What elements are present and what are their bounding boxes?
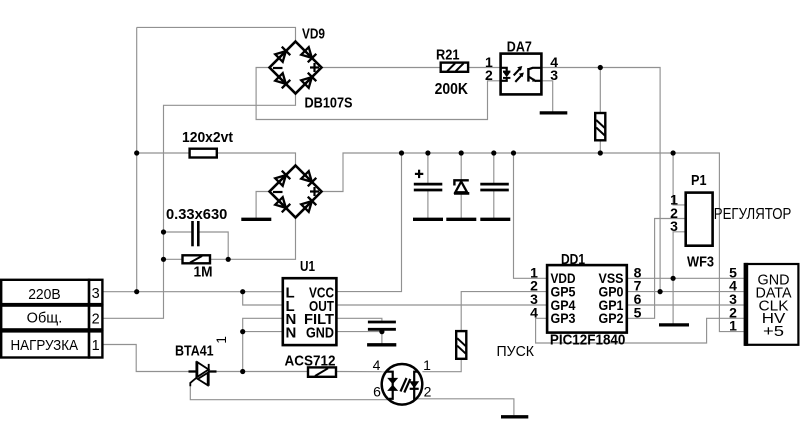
- label DD1 pin GP0: [599, 284, 624, 300]
- label REGULATOR: [714, 206, 792, 223]
- label U1 pin VCC: [309, 285, 334, 302]
- current sensor U1 box: [283, 278, 337, 345]
- microcontroller DD1 box: [547, 265, 627, 333]
- node L pins junction: [240, 289, 245, 294]
- svg-text:ПУСК: ПУСК: [497, 343, 535, 360]
- node N pins junction: [240, 329, 245, 334]
- svg-text:VD9: VD9: [302, 26, 325, 43]
- wire 1M stubs: [164, 258, 229, 260]
- label conn pin 4: [729, 278, 737, 294]
- shunt ACS712: [308, 367, 336, 376]
- label U1 pin N1: [286, 311, 297, 328]
- svg-text:GP2: GP2: [599, 310, 624, 326]
- label DD1 pin VSS: [599, 270, 624, 286]
- label HV: [762, 310, 786, 327]
- wire N2 stub: [243, 331, 283, 333]
- wire bus to U1 VCC: [336, 153, 401, 292]
- wire N pin jumper down to load line: [243, 318, 283, 371]
- label DD1: [561, 251, 585, 268]
- label R21: [436, 47, 460, 64]
- label NAGRUZKA: [11, 338, 79, 354]
- label DA7 pin 3: [550, 67, 558, 83]
- node bus zener tap: [459, 150, 464, 155]
- opto triac driver: [382, 364, 423, 405]
- wire bus to electrolytic cap: [427, 153, 429, 218]
- node bus VCC tap: [399, 150, 404, 155]
- wire bus to cap2: [493, 153, 495, 218]
- svg-text:5: 5: [634, 304, 642, 320]
- wire U1 GND to cap bottom and ground: [336, 331, 382, 344]
- svg-text:6: 6: [373, 383, 381, 399]
- wire bridge2 minus to ground: [256, 192, 269, 219]
- label DA7 pin 4: [550, 54, 558, 70]
- label Obsh: [27, 310, 63, 326]
- wire P1 pin2 to DD1 GP2: [627, 219, 686, 319]
- label U1 pin N2: [286, 325, 297, 342]
- label DD1 pin GP2: [599, 310, 624, 326]
- wire 220V line to U1 L pin: [102, 291, 282, 293]
- label DD1 pin 7: [634, 278, 642, 294]
- label DB107S: [305, 94, 353, 111]
- label DA7 pin 1: [485, 54, 493, 70]
- ground bridge2 minus: [241, 218, 271, 221]
- label WF3: [687, 254, 714, 271]
- label DD1 pin 2: [530, 278, 538, 294]
- node 1M left: [161, 257, 166, 262]
- svg-text:GND: GND: [306, 325, 334, 342]
- svg-text:4: 4: [530, 304, 538, 320]
- node bus P1 pin1 tap: [671, 150, 676, 155]
- label conn pin 5: [729, 264, 737, 280]
- label DATA: [756, 284, 792, 301]
- label DD1 pin GP4: [551, 297, 576, 313]
- label DD1 pin 4: [530, 304, 538, 320]
- wire P1 pin3 to VSS row and ground: [673, 232, 686, 324]
- capacitor 2: [480, 184, 509, 190]
- wire opto pin2 to ground: [416, 399, 514, 415]
- wire cap 0.33 right to 1M right node: [198, 232, 228, 259]
- ground DA7 pin3: [540, 111, 568, 114]
- label P1 pin 1: [670, 191, 678, 207]
- label PUSK: [497, 343, 535, 360]
- capacitor electrolytic plus: [414, 170, 443, 190]
- svg-text:2: 2: [424, 383, 432, 399]
- connector P1: [686, 193, 713, 246]
- node VSS row junction: [671, 276, 676, 281]
- node load line junction: [240, 369, 245, 374]
- connector left terminal block 220V: [1, 280, 102, 358]
- connector right programming header: [746, 263, 799, 346]
- label conn pin 3: [729, 291, 737, 307]
- label CLK: [759, 297, 789, 314]
- wire DA7 pin4 to node and down to GP0 row: [541, 68, 660, 292]
- label terminal pin 3: [92, 286, 100, 302]
- wire DD1 GP1 row to connector pin3 CLK: [627, 304, 744, 306]
- label DD1 pin GP3: [551, 310, 576, 326]
- ground cap2: [480, 218, 510, 221]
- label PIC12F1840: [550, 331, 626, 348]
- label terminal pin 2: [92, 312, 100, 328]
- node cap033 left top: [161, 229, 166, 234]
- label +5: [763, 323, 784, 340]
- wire DD1 GP0 row to connector pin4 DATA: [627, 291, 744, 293]
- label DD1 pin 5: [634, 304, 642, 320]
- wire top bus from left bus corner to VD9 top: [137, 27, 296, 41]
- bridge rectifier 2 (unlabeled): [270, 166, 322, 218]
- label DA7: [507, 38, 532, 55]
- wire U1 OUT to DD1 GP4: [336, 304, 547, 306]
- svg-text:3: 3: [550, 67, 558, 83]
- label DD1 pin 8: [634, 264, 642, 280]
- wire VD9 plus output to R21: [322, 67, 441, 69]
- triac BTA41: [189, 361, 217, 386]
- svg-text:R21: R21: [436, 47, 460, 64]
- node bus VDD tap: [511, 150, 516, 155]
- svg-text:DD1: DD1: [561, 251, 585, 268]
- label DD1 pin GP5: [551, 284, 576, 300]
- node bus resistor tap: [598, 150, 603, 155]
- wire DD1 VSS row to connector pin5 GND: [627, 277, 744, 279]
- resistor R21: [441, 63, 468, 72]
- svg-text:1: 1: [729, 318, 737, 334]
- node bus-left junction: [134, 150, 139, 155]
- resistor 1M: [183, 255, 211, 263]
- svg-text:DA7: DA7: [507, 38, 532, 55]
- wire DA7 pin3 to ground: [541, 81, 552, 112]
- wire P1 pin1 to bus: [673, 153, 686, 205]
- svg-text:N: N: [286, 325, 297, 342]
- label 1M: [194, 263, 213, 280]
- label DD1 pin 6: [634, 291, 642, 307]
- label 200K: [435, 81, 469, 98]
- wire R21 to DA7 pin1: [468, 67, 501, 69]
- svg-text:1: 1: [214, 336, 229, 344]
- label triac pin 1 rotated: [214, 336, 229, 344]
- capacitor FILT: [368, 322, 396, 329]
- label P1 pin 3: [670, 218, 678, 234]
- svg-text:BTA41: BTA41: [175, 343, 214, 360]
- label opto pin 2: [424, 383, 432, 399]
- resistor 120x2vt: [190, 149, 217, 158]
- wire bus to zener: [460, 153, 462, 218]
- wire vertical resistor bottom to bus: [599, 140, 601, 153]
- ground electrolytic: [413, 218, 443, 221]
- label terminal pin 1: [92, 338, 100, 354]
- svg-text:3: 3: [670, 218, 678, 234]
- wire bridge2 plus up to main DC bus and down to +5 connector pin1: [322, 153, 744, 332]
- label DD1 pin 3: [530, 291, 538, 307]
- ground opto pin2: [501, 415, 528, 418]
- label U1 pin GND: [306, 325, 334, 342]
- svg-text:4: 4: [373, 357, 381, 373]
- label opto pin 1: [423, 357, 431, 373]
- node GP0 row junction: [658, 289, 663, 294]
- wire node to cap 0.33 left: [164, 231, 193, 233]
- svg-text:DB107S: DB107S: [305, 94, 353, 111]
- wire load line from NAGRUZKA pin1 to triac: [102, 345, 189, 372]
- svg-text:P1: P1: [691, 172, 707, 189]
- wire ACS712 to opto pin4: [336, 371, 386, 373]
- label P1: [691, 172, 707, 189]
- label U1: [300, 258, 315, 275]
- zener diode: [454, 180, 469, 193]
- svg-text:GP3: GP3: [551, 310, 576, 326]
- svg-text:2: 2: [485, 67, 493, 83]
- ground zener: [446, 218, 476, 221]
- bridge rectifier VD9: [270, 42, 322, 94]
- label conn pin 1: [729, 318, 737, 334]
- label 120x2vt: [182, 129, 233, 146]
- svg-text:РЕГУЛЯТОР: РЕГУЛЯТОР: [714, 206, 792, 223]
- node FILT cap GND junction: [379, 329, 384, 334]
- label DD1 pin GP1: [599, 297, 624, 313]
- wire opto pin6 to triac gate: [190, 386, 389, 400]
- optocoupler DA7: [501, 54, 542, 95]
- label U1 pin L1: [286, 285, 295, 302]
- svg-text:PIC12F1840: PIC12F1840: [550, 331, 626, 348]
- wire stub node to vertical resistor top: [599, 68, 601, 114]
- svg-text:1: 1: [92, 338, 100, 354]
- svg-text:ACS712: ACS712: [285, 353, 336, 370]
- wire bridge2 bottom to cap network: [228, 218, 295, 260]
- svg-text:1M: 1M: [194, 263, 213, 280]
- svg-text:1: 1: [423, 357, 431, 373]
- svg-text:0.33x630: 0.33x630: [166, 206, 227, 223]
- ground DD1 VSS: [659, 323, 689, 326]
- svg-text:Общ.: Общ.: [27, 310, 63, 326]
- svg-text:120x2vt: 120x2vt: [182, 129, 233, 146]
- wire VD9 minus output to DA7 pin2: [256, 68, 501, 120]
- node 220V line junction: [134, 289, 139, 294]
- svg-text:220В: 220В: [28, 287, 61, 303]
- svg-text:WF3: WF3: [687, 254, 714, 271]
- wire L pins jumper: [243, 292, 283, 305]
- label U1 pin OUT: [309, 298, 334, 315]
- node DA7 pin4 resistor tap: [598, 65, 603, 70]
- svg-text:2: 2: [92, 312, 100, 328]
- wire triac to ACS712 shunt: [216, 371, 308, 373]
- wire bus left segment with 120x2vt: [137, 153, 296, 166]
- svg-text:3: 3: [92, 286, 100, 302]
- label opto pin 6: [373, 383, 381, 399]
- svg-text:+5: +5: [763, 323, 784, 340]
- resistor vertical at DA7 output: [595, 113, 605, 140]
- label opto pin 4: [373, 357, 381, 373]
- label conn pin 2: [729, 304, 737, 320]
- resistor vertical at opto pin1 / GP5: [456, 331, 466, 359]
- label VD9: [302, 26, 325, 43]
- node 1M right: [226, 257, 231, 262]
- label U1 pin L2: [286, 298, 295, 315]
- wire DD1 GP3 PUSK line to connector pin2 HV: [536, 318, 744, 343]
- label 220V: [28, 287, 61, 303]
- label U1 pin FILT: [304, 311, 334, 328]
- capacitor 0.33x630: [193, 221, 199, 246]
- label GND: [758, 272, 790, 289]
- label BTA41: [175, 343, 214, 360]
- label 0.33x630: [166, 206, 227, 223]
- label DA7 pin 2: [485, 67, 493, 83]
- wire VD9 bottom to Obsh net vertical x=163.5: [102, 94, 295, 319]
- label DD1 pin VDD: [551, 270, 576, 286]
- svg-text:НАГРУЗКА: НАГРУЗКА: [11, 338, 79, 354]
- wire left vertical bus x=136.7: [136, 27, 138, 291]
- label ACS712: [285, 353, 336, 370]
- wire U1 FILT to cap: [336, 318, 382, 321]
- wire bus to DD1 VDD pin1: [514, 153, 548, 278]
- ground FILT cap: [367, 343, 396, 346]
- svg-text:200K: 200K: [435, 81, 469, 98]
- node bus cap1 tap: [425, 150, 430, 155]
- node bus cap2 tap: [491, 150, 496, 155]
- label DD1 pin 1: [530, 264, 538, 280]
- label P1 pin 2: [670, 205, 678, 221]
- wire DD1 GP5 down through resistor to opto pin1: [422, 292, 547, 372]
- svg-text:U1: U1: [300, 258, 315, 275]
